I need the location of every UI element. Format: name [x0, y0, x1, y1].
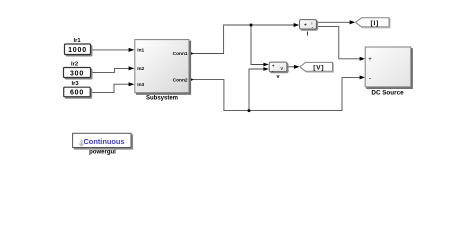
svg-text:[I]: [I]	[371, 20, 380, 27]
svg-text:Ir2: Ir2	[71, 61, 78, 67]
svg-text:In1: In1	[137, 48, 144, 54]
svg-text:DC Source: DC Source	[371, 90, 404, 97]
svg-text:1000: 1000	[68, 47, 87, 54]
svg-text:In3: In3	[137, 82, 144, 88]
svg-text:Subsystem: Subsystem	[146, 95, 178, 101]
svg-text:+: +	[368, 57, 372, 63]
svg-text:600: 600	[70, 90, 84, 97]
svg-text:Ir3: Ir3	[71, 81, 79, 87]
svg-text:Conn1: Conn1	[173, 51, 188, 57]
svg-text:-: -	[312, 25, 314, 31]
svg-text:300: 300	[70, 70, 84, 77]
svg-text:In2: In2	[137, 66, 144, 72]
svg-text:[V]: [V]	[313, 64, 324, 71]
svg-text:+: +	[304, 23, 307, 29]
svg-text:Continuous: Continuous	[83, 137, 124, 146]
svg-text:powergui: powergui	[89, 150, 116, 156]
svg-text:Conn2: Conn2	[173, 77, 188, 83]
svg-text:Ir1: Ir1	[73, 38, 81, 44]
